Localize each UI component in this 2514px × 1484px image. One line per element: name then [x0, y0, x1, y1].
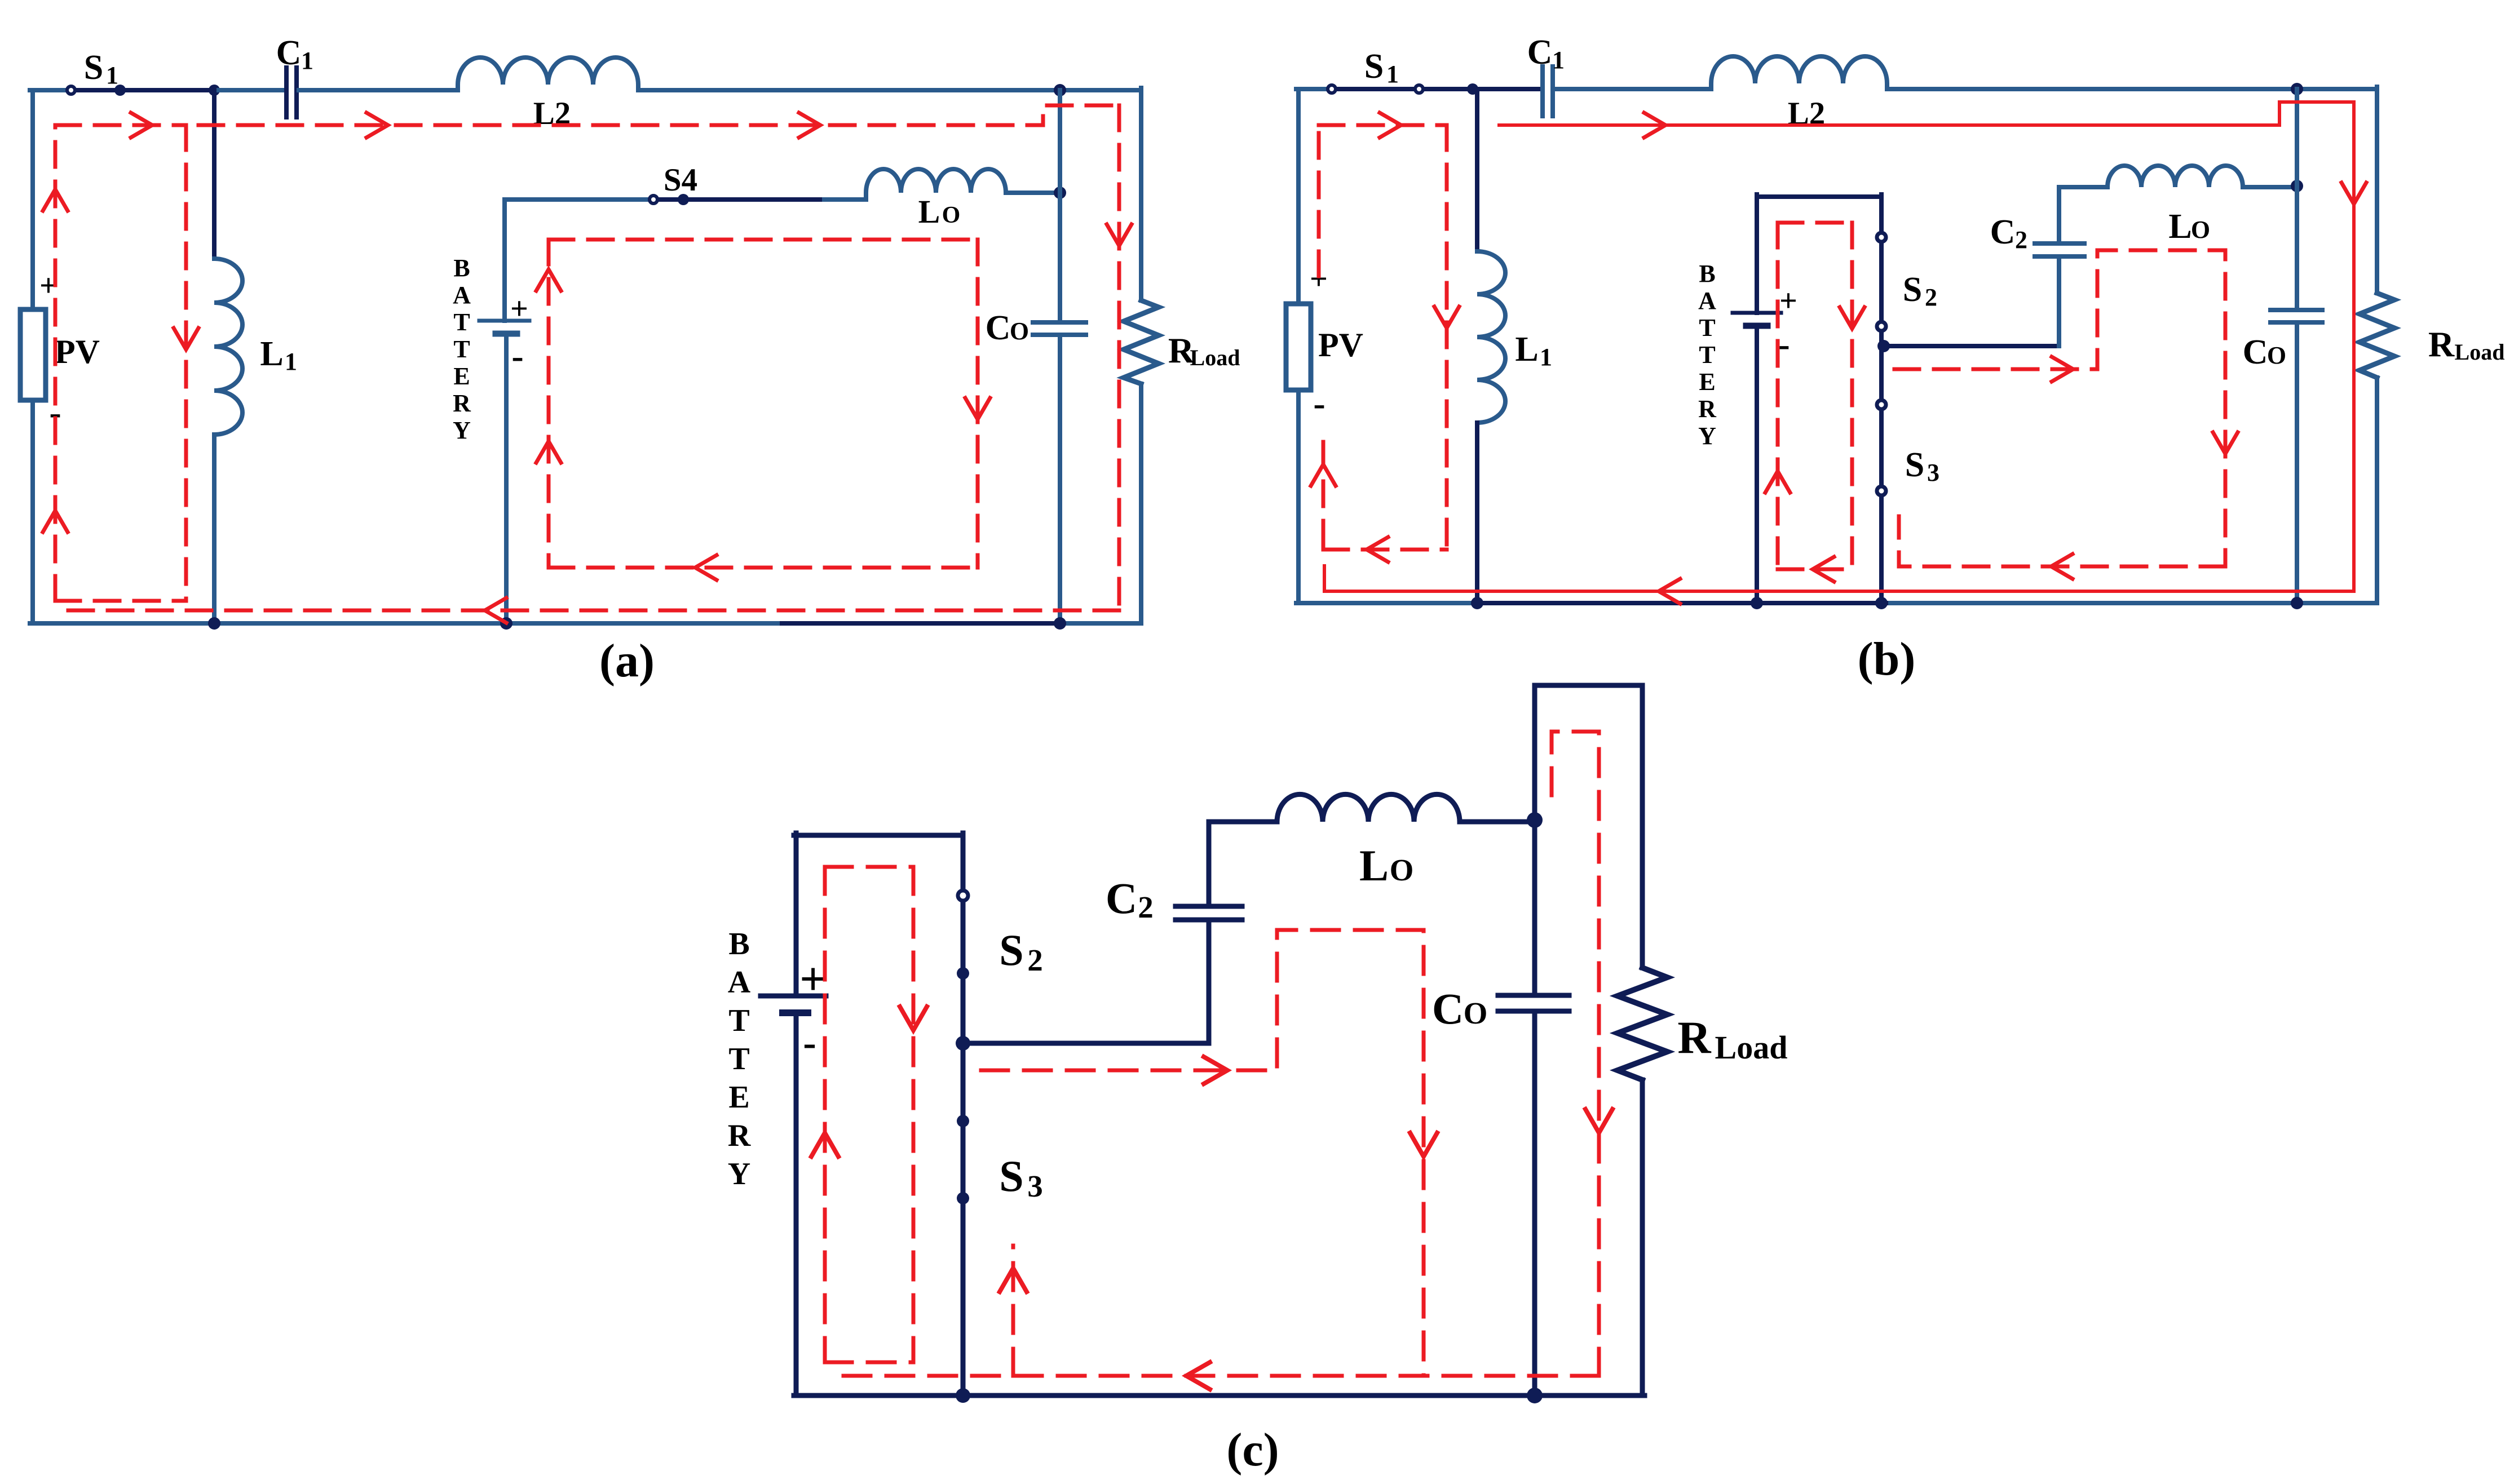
- label L1 (b): [1515, 330, 1552, 371]
- svg-text:Load: Load: [1715, 1029, 1788, 1066]
- svg-text:C: C: [1432, 984, 1464, 1033]
- wire: C2 riser (c): [1207, 922, 1212, 1043]
- svg-text:-: -: [803, 1021, 816, 1065]
- arrow up on battery loop left (c): [811, 1133, 838, 1157]
- wire: circuit (a) left edge from top-left corner down to PV top: [30, 90, 35, 309]
- wire: Lo to Co branch (b): [2243, 185, 2297, 189]
- wire: L1 branch stub (b): [1475, 89, 1479, 251]
- current path: PV loop left (dashed): [54, 125, 58, 601]
- arrow down on battery loop right: [965, 398, 990, 419]
- wire: L1 bottom run to bottom wire: [212, 435, 217, 623]
- node: battery bottom junction: [500, 617, 512, 630]
- wire: (b) bottom wire: [1296, 601, 2377, 605]
- wire: right edge down to R_Load: [1139, 88, 1143, 300]
- wire: battery left vertical upper (b): [1755, 194, 1759, 313]
- current path: battery loop right (dashed): [976, 240, 980, 568]
- svg-text:C: C: [1527, 33, 1553, 72]
- arrow right on L2 path at x1455: [799, 113, 820, 138]
- label PV plus: [39, 268, 58, 303]
- switch S1: [67, 85, 213, 96]
- svg-text:S: S: [999, 925, 1023, 974]
- svg-text:(b): (b): [1858, 633, 1916, 685]
- arrow right on L2 path at x560: [366, 113, 388, 138]
- svg-text:2: 2: [1138, 890, 1154, 924]
- PV source PV (b): [1286, 304, 1311, 390]
- wire: PV bottom to bottom-left corner: [30, 400, 35, 623]
- svg-text:L: L: [918, 193, 940, 230]
- arrow up on battery loop left at y797: [536, 441, 561, 463]
- current path: S2 to C2 loop (b) dashed: [1894, 250, 2225, 566]
- label C1 (b): [1527, 33, 1565, 74]
- capacitor Co (b): [2270, 310, 2322, 322]
- arrow left on solid bottom (b): [1659, 579, 1680, 604]
- wire: top-right rectangle (c): [1535, 685, 1642, 968]
- wire: junction to C1 left plate: [214, 88, 284, 92]
- wire: Co branch upper (b): [2295, 89, 2299, 310]
- wire: C1 to L2 (b): [1555, 87, 1711, 91]
- node: Lo / Co junction (c): [1527, 812, 1543, 828]
- arrow up on battery loop left (b): [1765, 471, 1790, 493]
- current path: PV loop top (dashed): [55, 123, 186, 127]
- inductor L1 (b): [1477, 251, 1505, 423]
- svg-text:C: C: [1106, 874, 1137, 923]
- svg-text:B: B: [453, 254, 470, 282]
- arrow up on PV loop (b): [1311, 464, 1336, 486]
- wire: C2 to Lo riser and corner (b): [2059, 187, 2107, 243]
- node: Lo / Co junction (b): [2291, 180, 2303, 192]
- label Lo (a): [918, 193, 961, 230]
- svg-text:1: 1: [285, 348, 297, 375]
- wire: bottom wire (c): [794, 1393, 1645, 1398]
- arrow left on battery loop bottom: [695, 555, 717, 580]
- svg-text:PV: PV: [55, 333, 100, 370]
- wire: R_Load bottom to bottom-right corner: [1139, 384, 1143, 623]
- wire: bottom wire navy middle section: [777, 621, 1060, 626]
- wire: Co branch lower (c): [1532, 1011, 1537, 1396]
- wire: junction to C1 (b): [1473, 87, 1540, 91]
- svg-text:S4: S4: [664, 162, 697, 198]
- label S2 (c): [999, 925, 1042, 977]
- svg-text:3: 3: [1027, 1169, 1043, 1203]
- wire: battery top wire (c): [794, 833, 963, 838]
- wire: S4 wire from battery top: [505, 197, 648, 202]
- svg-text:2: 2: [2015, 226, 2027, 254]
- svg-text:1: 1: [106, 61, 118, 89]
- current path: battery loop top (c) dashed: [825, 865, 913, 869]
- svg-text:R: R: [453, 389, 471, 417]
- arrow up on PV loop at y920: [43, 511, 68, 532]
- arrow right on PV loop top: [131, 113, 152, 138]
- capacitor C2 (c): [1176, 906, 1242, 920]
- label battery plus (c): [799, 953, 827, 1005]
- wire: Co branch lower: [1058, 335, 1062, 623]
- capacitor Co (c): [1498, 995, 1569, 1011]
- inductor L2 (b): [1711, 56, 1887, 89]
- svg-text:O: O: [942, 202, 961, 228]
- svg-text:Y: Y: [728, 1157, 750, 1191]
- resistor R_Load (b): [2360, 293, 2394, 378]
- label L2: [533, 96, 571, 131]
- svg-text:C: C: [1990, 213, 2016, 251]
- node: junction of top wire and L1 branch: [209, 85, 220, 96]
- arrow right on solid top (b): [1644, 113, 1665, 138]
- svg-text:T: T: [728, 1003, 749, 1038]
- svg-text:1: 1: [1386, 60, 1399, 88]
- label S4: [664, 162, 697, 198]
- wire: bottom wire left section: [30, 621, 777, 626]
- inductor Lo (b): [2107, 166, 2243, 187]
- svg-text:2: 2: [1925, 283, 1937, 311]
- current path: battery loop right (c) dashed: [912, 867, 916, 1362]
- current path: PV loop right (b) dashed: [1445, 125, 1449, 550]
- switch S2 (b): [1877, 233, 1886, 331]
- arrow right on PV loop top (b): [1380, 113, 1401, 138]
- label L1: [260, 335, 297, 375]
- svg-text:A: A: [1698, 287, 1716, 314]
- current path: battery loop bottom (b) dashed: [1778, 568, 1852, 572]
- svg-text:1: 1: [1552, 46, 1565, 74]
- arrow down on S2 loop right (b): [2213, 432, 2238, 454]
- svg-text:-: -: [511, 336, 523, 376]
- switch S3 (b): [1877, 400, 1886, 603]
- svg-text:T: T: [1699, 341, 1715, 369]
- wire: Co branch upper (c): [1532, 820, 1537, 995]
- arrow up on PV loop at y350: [43, 189, 68, 211]
- svg-text:+: +: [510, 291, 528, 326]
- label PV (b): [1318, 326, 1363, 364]
- wire: (b) left edge lower: [1296, 390, 1301, 603]
- wire: Lo to Co branch: [1006, 191, 1060, 195]
- resistor R_Load (c): [1618, 968, 1667, 1080]
- label C2 (c): [1106, 874, 1154, 924]
- current path: right descent (dashed): [1117, 105, 1121, 610]
- label BATTERY (c): [728, 927, 751, 1191]
- wire: (b) right edge down to R_Load: [2375, 87, 2379, 293]
- node: junction top wire / Co branch: [1054, 84, 1066, 96]
- svg-text:T: T: [453, 335, 470, 363]
- svg-text:B: B: [1699, 260, 1715, 287]
- label R_Load (b): [2428, 324, 2505, 365]
- svg-text:Y: Y: [453, 417, 471, 444]
- capacitor C2 (b): [2035, 243, 2084, 256]
- wire: S2/S3 chain upper (c): [961, 833, 966, 889]
- wire: (b) R_Load bottom to corner: [2375, 378, 2379, 603]
- label battery minus (b): [1778, 324, 1790, 364]
- switch S3 (c): [957, 1115, 969, 1204]
- label C2 (b): [1990, 213, 2027, 254]
- arrow left on bottom return: [485, 598, 506, 623]
- current path: solid red right descent (b): [2352, 102, 2356, 591]
- CIRCUIT A: [20, 34, 1240, 687]
- wire: battery bottom run (c): [794, 1013, 799, 1396]
- current path: battery loop right (b) dashed: [1850, 223, 1854, 569]
- svg-text:O: O: [1390, 853, 1414, 887]
- svg-text:A: A: [728, 965, 751, 1000]
- svg-text:T: T: [728, 1042, 749, 1077]
- svg-text:Load: Load: [2455, 339, 2505, 365]
- node: junction top wire / Co (b): [2291, 83, 2303, 95]
- current path: bottom return (c) dashed: [842, 1374, 1599, 1378]
- label S3 (b): [1905, 446, 1939, 486]
- arrow left on battery loop bottom (b): [1813, 557, 1834, 582]
- svg-text:R: R: [1677, 1012, 1711, 1063]
- node: chain bottom junction (c): [956, 1388, 970, 1403]
- current path: bottom return (dashed): [63, 601, 1119, 610]
- svg-text:L: L: [1359, 841, 1389, 890]
- svg-text:O: O: [2191, 216, 2210, 243]
- node: S2/C2 junction (c): [956, 1036, 970, 1051]
- CIRCUIT C: [728, 685, 1788, 1476]
- wire: battery bottom to bottom wire: [504, 334, 509, 623]
- arrow right on S2 loop (b): [2052, 357, 2073, 382]
- node: battery bottom junction (b): [1751, 597, 1763, 609]
- arrow left on S2 loop bottom (b): [2051, 554, 2073, 579]
- arrow down on PV loop right: [174, 328, 198, 349]
- current path: S2 loop bottom (b) dashed: [1899, 516, 2225, 566]
- label BATTERY (b): [1698, 260, 1717, 450]
- node: (b) junction top wire / L1: [1467, 83, 1478, 95]
- label C1: [276, 34, 313, 74]
- svg-text:S: S: [84, 48, 103, 87]
- current path: S3 riser (c) dashed: [1011, 1246, 1015, 1376]
- arrow left on bottom return (c): [1186, 1362, 1210, 1389]
- node: Co bottom junction: [1054, 617, 1066, 630]
- label S1: [84, 48, 118, 89]
- label battery plus: [510, 291, 528, 326]
- current path: battery loop left (b) dashed: [1776, 223, 1780, 569]
- svg-text:-: -: [1778, 324, 1790, 364]
- current path: PV loop top (b) dashed: [1319, 123, 1447, 127]
- label PV minus: [49, 392, 61, 432]
- label (c): [1226, 1424, 1279, 1476]
- arrow down on battery loop right (b): [1840, 307, 1864, 329]
- svg-text:C: C: [2243, 333, 2268, 371]
- label BATTERY (a): [453, 254, 471, 444]
- label Lo (c): [1359, 841, 1413, 890]
- switch S2 (c): [957, 891, 969, 1396]
- svg-text:R: R: [1698, 395, 1717, 423]
- label (a): [599, 635, 655, 687]
- arrow right on C2 loop (c): [1204, 1057, 1227, 1084]
- label S1 (b): [1364, 47, 1399, 88]
- svg-text:E: E: [1699, 368, 1715, 396]
- wire: Co branch lower (b): [2295, 322, 2299, 603]
- CIRCUIT B: [1286, 33, 2504, 685]
- wire: junction to C2 riser (c): [963, 1041, 1209, 1046]
- wire: junction to C2 riser (b): [1884, 344, 2059, 348]
- svg-text:C: C: [276, 34, 302, 72]
- wire: L2 to top-right corner (b): [1887, 87, 2377, 91]
- switch S4: [650, 194, 824, 205]
- svg-text:E: E: [728, 1080, 749, 1115]
- label S3 (c): [999, 1151, 1042, 1203]
- battery BAT1 top wire to S4: [502, 200, 507, 321]
- current path: C2/Lo loop (c) dashed: [981, 930, 1424, 1376]
- arrow down on R_Load loop (c): [1585, 1109, 1612, 1133]
- arrow left on PV loop bottom (b): [1367, 537, 1388, 562]
- wire: circuit (b) left edge upper: [1296, 89, 1301, 304]
- current path: PV loop right (dashed): [184, 125, 188, 601]
- svg-text:T: T: [1699, 314, 1715, 342]
- svg-text:R: R: [728, 1118, 751, 1153]
- wire: Co branch upper: [1058, 90, 1062, 322]
- resistor R_Load: [1124, 300, 1159, 384]
- capacitor C1 (b): [1543, 67, 1553, 116]
- capacitor C1: [286, 68, 297, 117]
- svg-text:S: S: [1903, 271, 1922, 309]
- svg-text:E: E: [453, 362, 470, 390]
- svg-text:1: 1: [1540, 343, 1552, 371]
- node: L1 bottom junction: [208, 617, 220, 630]
- inductor Lo (c): [1277, 794, 1460, 822]
- current path: battery loop bottom (c) dashed: [825, 1361, 913, 1365]
- label battery minus (c): [803, 1021, 816, 1065]
- label battery plus (b): [1779, 283, 1797, 318]
- arrow down on PV loop right (b): [1434, 307, 1459, 328]
- svg-text:S: S: [1905, 446, 1924, 484]
- wire: L1 bottom run (b): [1475, 423, 1479, 603]
- svg-text:S: S: [999, 1151, 1023, 1201]
- svg-text:O: O: [2267, 342, 2286, 369]
- svg-text:R: R: [2428, 324, 2455, 364]
- PV source PV: [20, 309, 46, 400]
- svg-text:O: O: [1464, 996, 1488, 1030]
- current path: solid red bottom return (b): [1324, 566, 2354, 591]
- arrow down on C2 loop right (c): [1410, 1133, 1437, 1157]
- node: chain bottom junction (b): [1875, 597, 1888, 609]
- svg-text:Y: Y: [1698, 422, 1716, 450]
- svg-text:S: S: [1364, 47, 1384, 86]
- arrow up on battery loop left at y492: [536, 269, 561, 291]
- svg-text:L: L: [1515, 330, 1538, 369]
- label battery minus: [511, 336, 523, 376]
- capacitor Co (a): [1033, 322, 1086, 335]
- current path: battery loop top (b) dashed: [1778, 221, 1852, 225]
- svg-text:L: L: [260, 335, 283, 373]
- current path: PV loop bottom (dashed): [55, 599, 186, 603]
- node: L1 bottom junction (b): [1471, 597, 1483, 609]
- wire: (b) bottom wire navy segment: [1477, 601, 1886, 605]
- wire: (b) top wire corner to S1: [1296, 87, 1327, 91]
- wire: C2 riser (b): [2057, 259, 2061, 346]
- wire: top wire from corner to switch S1: [30, 88, 66, 92]
- battery BAT1 plates: [479, 321, 529, 334]
- wire: battery bottom run (b): [1755, 326, 1759, 603]
- arrow down on right descent: [1107, 224, 1132, 246]
- svg-text:(a): (a): [599, 635, 655, 687]
- current path: R_Load loop (c) dashed: [1552, 732, 1599, 1376]
- svg-text:1: 1: [301, 47, 313, 74]
- current path: solid red top run (b): [1499, 102, 2354, 125]
- svg-text:(c): (c): [1226, 1424, 1279, 1476]
- svg-text:+: +: [1779, 283, 1797, 318]
- wire: S2/S3 chain upper (b): [1879, 194, 1884, 232]
- node: S2/C2 junction (b): [1877, 332, 1890, 400]
- svg-text:2: 2: [1027, 943, 1043, 977]
- inductor Lo (a): [824, 169, 1006, 200]
- svg-text:O: O: [1010, 317, 1029, 345]
- wire: battery left vertical upper (c): [794, 833, 799, 995]
- current path: battery loop left (c) dashed: [823, 867, 827, 1362]
- switch S1 (b): [1328, 85, 1472, 93]
- svg-text:A: A: [453, 281, 471, 309]
- node: Co bottom junction (b): [2291, 597, 2303, 609]
- label R_Load (c): [1677, 1012, 1787, 1066]
- current path: PV loop left lower (b) dashed: [1322, 442, 1326, 550]
- label L2 (b): [1788, 96, 1826, 131]
- label PV minus (b): [1313, 383, 1325, 423]
- wire: bottom wire (right steel section): [1060, 621, 1141, 626]
- label PV: [55, 333, 100, 370]
- svg-text:Load: Load: [1190, 345, 1240, 370]
- svg-text:+: +: [799, 953, 827, 1005]
- battery BAT2 branch top wire: [1757, 194, 1881, 199]
- svg-text:C: C: [986, 309, 1011, 347]
- arrow down on solid right (b): [2341, 183, 2366, 204]
- label R_Load: [1168, 330, 1240, 370]
- wire: L1 branch upper stub: [212, 90, 217, 259]
- svg-text:3: 3: [1927, 459, 1939, 486]
- current path: PV loop bottom (b) dashed: [1323, 548, 1447, 552]
- wire: C1 right plate to inductor L2: [299, 88, 458, 92]
- current path: battery loop bottom (dashed): [549, 566, 978, 570]
- label S2 (b): [1903, 271, 1937, 311]
- current path: L2 top run (dashed): [198, 105, 1119, 125]
- label Co (c): [1432, 984, 1488, 1033]
- battery BAT3 plates: [761, 996, 826, 1013]
- node: Lo / Co junction: [1054, 187, 1066, 199]
- inductor L1: [214, 259, 242, 435]
- battery BAT2 plates: [1733, 313, 1781, 326]
- wire: R_Load bottom to corner (c): [1640, 1080, 1645, 1396]
- label (b): [1858, 633, 1916, 685]
- svg-text:PV: PV: [1318, 326, 1363, 364]
- inductor L2: [458, 57, 638, 90]
- current path: battery loop left (dashed): [547, 240, 551, 568]
- label Co (a): [986, 309, 1030, 347]
- label Lo (b): [2168, 207, 2210, 246]
- arrow up on S3 riser (c): [1000, 1268, 1027, 1292]
- current path: battery loop top (dashed): [549, 238, 978, 242]
- wire: C2 to Lo (c): [1209, 822, 1277, 906]
- svg-text:L: L: [2168, 207, 2192, 246]
- arrow down on battery loop right (c): [900, 1007, 927, 1030]
- svg-text:T: T: [453, 308, 470, 336]
- svg-text:-: -: [1313, 383, 1325, 423]
- wire: Lo to Co junction (c): [1460, 819, 1535, 825]
- wire: L2 to top-right corner: [638, 88, 1141, 92]
- label PV plus (b): [1310, 262, 1328, 296]
- svg-text:B: B: [728, 927, 749, 962]
- label Co (b): [2243, 333, 2287, 371]
- node: Co bottom junction (c): [1527, 1388, 1543, 1403]
- current path: PV loop left (b) dashed: [1317, 125, 1321, 276]
